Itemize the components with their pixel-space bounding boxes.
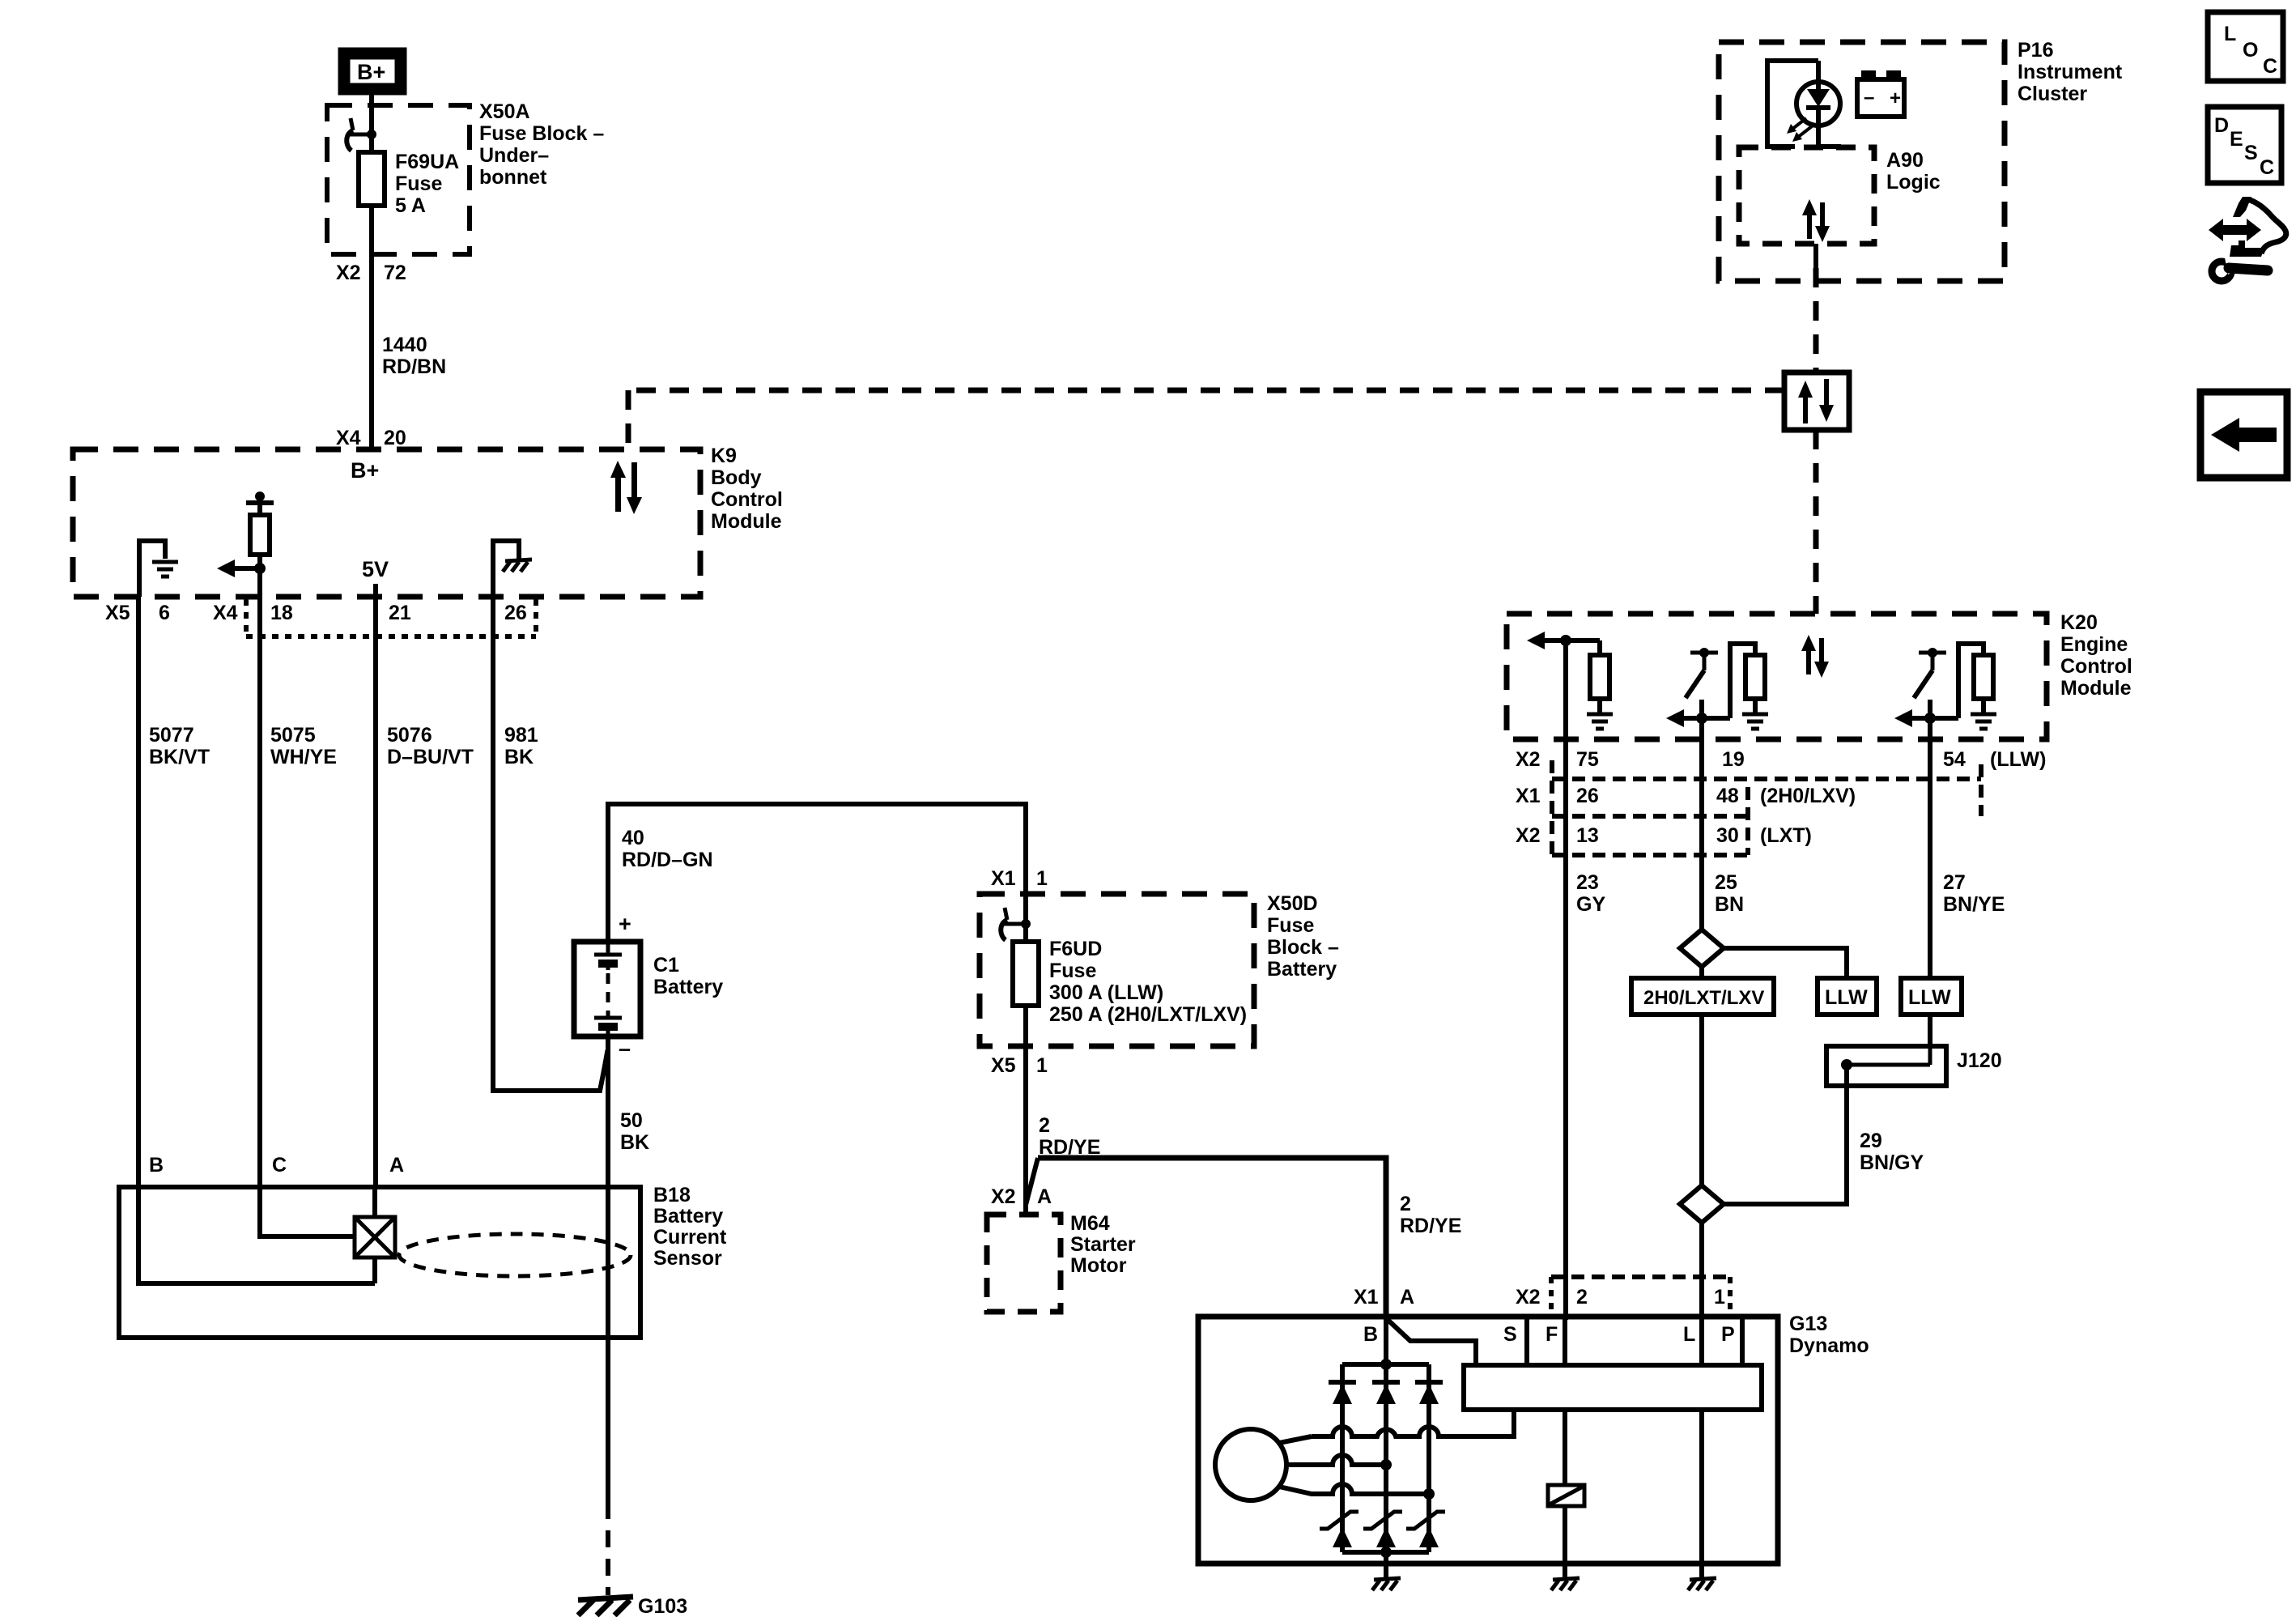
svg-text:250 A (2H0/LXT/LXV): 250 A (2H0/LXT/LXV) xyxy=(1049,1003,1247,1026)
svg-text:X1: X1 xyxy=(991,867,1016,890)
connector clip at F6UD xyxy=(1005,908,1007,920)
earth ground in K20 middle xyxy=(1742,714,1768,729)
wire 27 BN/YE xyxy=(1928,739,1932,978)
starter motor M64 dashed box xyxy=(987,1215,1061,1312)
svg-text:Motor: Motor xyxy=(1070,1254,1127,1277)
svg-text:Starter: Starter xyxy=(1070,1233,1136,1256)
svg-text:X50A: X50A xyxy=(479,100,530,123)
svg-text:BN: BN xyxy=(1715,893,1744,916)
splice diamond wire 25 xyxy=(1680,930,1724,967)
serial data line to K20 xyxy=(1813,430,1819,614)
svg-text:2: 2 xyxy=(1039,1114,1050,1137)
svg-text:A90: A90 xyxy=(1886,149,1924,172)
wire 29 BN/GY xyxy=(1724,1065,1847,1204)
svg-text:LLW: LLW xyxy=(1908,986,1951,1009)
signal arrow K20 pin54 xyxy=(1894,709,1912,727)
svg-text:18: 18 xyxy=(270,602,293,624)
data arrows in K20 xyxy=(1801,635,1829,678)
svg-text:–: – xyxy=(619,1036,631,1061)
svg-text:X4: X4 xyxy=(336,427,361,449)
switch stub pin19 xyxy=(1703,653,1707,670)
svg-text:bonnet: bonnet xyxy=(479,166,547,189)
K20 pin75 wire down xyxy=(1563,640,1568,739)
data arrows in A90 xyxy=(1802,199,1830,242)
svg-text:25: 25 xyxy=(1715,871,1737,894)
svg-text:–: – xyxy=(1864,87,1874,109)
junction dot pin54 xyxy=(1924,713,1936,724)
B18 Battery Current Sensor box xyxy=(119,1187,640,1338)
wrench xyxy=(2212,262,2231,281)
svg-text:O: O xyxy=(2243,39,2258,62)
wire 5075 WH/YE xyxy=(257,597,262,1187)
wire 25 BN through option box xyxy=(1699,967,1704,978)
svg-text:C: C xyxy=(272,1154,287,1177)
branch splice to dynamo feed xyxy=(1026,1158,1038,1205)
terminal dot above pull-up xyxy=(255,491,265,501)
svg-text:Dynamo: Dynamo xyxy=(1789,1334,1869,1357)
wire B down to rectifier xyxy=(1384,1317,1388,1364)
LED emission arrows xyxy=(1787,118,1812,142)
svg-text:Body: Body xyxy=(711,466,762,489)
wire to pull resistor pin54 xyxy=(1958,644,1983,718)
svg-text:BK: BK xyxy=(620,1131,649,1154)
dashed ellipse clamp loop xyxy=(399,1234,631,1276)
svg-text:72: 72 xyxy=(384,262,406,284)
svg-text:13: 13 xyxy=(1576,824,1599,847)
wire 5077 BK/VT xyxy=(136,597,141,1187)
svg-text:75: 75 xyxy=(1576,748,1599,771)
svg-text:D–BU/VT: D–BU/VT xyxy=(387,746,474,768)
5V stub pin 21 xyxy=(373,584,378,597)
node B+ battery feed box xyxy=(344,53,401,89)
svg-text:5076: 5076 xyxy=(387,724,432,747)
svg-text:X50D: X50D xyxy=(1267,892,1318,915)
svg-text:Battery: Battery xyxy=(1267,958,1337,981)
svg-text:(2H0/LXV): (2H0/LXV) xyxy=(1760,785,1856,807)
svg-text:Sensor: Sensor xyxy=(653,1247,722,1270)
field relay symbol on F xyxy=(1548,1485,1584,1506)
svg-text:X1: X1 xyxy=(1516,785,1541,807)
switch stub pin54 xyxy=(1931,653,1935,670)
svg-text:300 A (LLW): 300 A (LLW) xyxy=(1049,981,1163,1004)
wire 5076 D-BU/VT xyxy=(373,597,378,1187)
svg-text:5077: 5077 xyxy=(149,724,194,747)
option box 2H0/LXT/LXV xyxy=(1631,978,1774,1015)
icon back arrow box xyxy=(2200,392,2287,478)
fuse F6UD xyxy=(1013,942,1039,1006)
telltale lamp housing box xyxy=(1767,61,1818,147)
K9 Body Control Module dashed box xyxy=(73,449,700,597)
terminal bar above pull-up xyxy=(246,500,274,505)
svg-text:21: 21 xyxy=(389,602,411,624)
svg-text:26: 26 xyxy=(1576,785,1599,807)
svg-text:X2: X2 xyxy=(991,1185,1016,1208)
connector X2 dashed bracket above dynamo xyxy=(1551,1274,1730,1279)
wire pin19 internal node xyxy=(1681,716,1730,721)
wire resistor to ground pin54 xyxy=(1981,699,1986,713)
svg-text:(LLW): (LLW) xyxy=(1990,748,2046,771)
svg-text:RD/BN: RD/BN xyxy=(382,355,446,378)
wire into fuse F6UD xyxy=(1023,923,1028,942)
svg-text:X2: X2 xyxy=(1516,824,1541,847)
svg-text:+: + xyxy=(619,912,631,936)
svg-text:F: F xyxy=(1546,1323,1558,1346)
telltale battery icon xyxy=(1857,79,1904,117)
svg-text:BN/YE: BN/YE xyxy=(1943,893,2005,916)
svg-text:1440: 1440 xyxy=(382,334,427,356)
svg-text:X2: X2 xyxy=(336,262,361,284)
svg-text:Under–: Under– xyxy=(479,144,549,167)
wire pin54 internal node xyxy=(1909,716,1958,721)
fuse block X50D dashed box xyxy=(980,894,1254,1046)
rotor circle xyxy=(1215,1429,1286,1500)
wire K20 pin75 internal node xyxy=(1541,638,1600,643)
svg-text:BN/GY: BN/GY xyxy=(1860,1151,1924,1174)
svg-text:S: S xyxy=(1503,1323,1517,1346)
svg-text:E: E xyxy=(2230,128,2243,151)
svg-text:Module: Module xyxy=(711,510,782,533)
svg-text:1: 1 xyxy=(1036,867,1048,890)
svg-text:A: A xyxy=(1400,1286,1414,1308)
pin tick 75 xyxy=(1554,777,1566,781)
svg-text:Fuse: Fuse xyxy=(1267,914,1314,937)
wire B to ground xyxy=(1384,1552,1388,1578)
wire to pull resistor xyxy=(1597,640,1602,655)
junction dot pin75 xyxy=(1560,635,1571,646)
svg-text:54: 54 xyxy=(1943,748,1966,771)
svg-text:BK/VT: BK/VT xyxy=(149,746,210,768)
wire switch to node pin19 xyxy=(1699,700,1704,718)
pin box separators S F P xyxy=(1524,1317,1529,1365)
svg-text:50: 50 xyxy=(620,1109,643,1132)
SEC1 xyxy=(980,894,1386,1317)
ground G103 symbol xyxy=(578,1597,633,1615)
svg-text:Fuse: Fuse xyxy=(1049,960,1096,982)
svg-text:Fuse: Fuse xyxy=(395,172,442,195)
svg-text:23: 23 xyxy=(1576,871,1599,894)
svg-text:RD/YE: RD/YE xyxy=(1400,1215,1461,1237)
wire B+ to fuse block xyxy=(369,91,374,134)
svg-text:Current: Current xyxy=(653,1226,727,1249)
svg-text:C: C xyxy=(2263,55,2277,78)
svg-text:+: + xyxy=(1890,87,1901,109)
data arrows in K9 xyxy=(610,461,642,514)
svg-text:X2: X2 xyxy=(1516,748,1541,771)
wire through fuse xyxy=(369,134,374,152)
wire to pull resistor pin19 xyxy=(1730,644,1755,718)
svg-text:Logic: Logic xyxy=(1886,171,1941,194)
wire pin18 inside K9 xyxy=(257,568,262,597)
K20 pin19 wire down xyxy=(1699,718,1704,739)
svg-text:X2: X2 xyxy=(1516,1286,1541,1308)
wire 50 BK dashed to ground xyxy=(606,1502,610,1595)
svg-text:X4: X4 xyxy=(213,602,238,624)
switch contact K20 pin54 xyxy=(1919,651,1946,655)
svg-text:27: 27 xyxy=(1943,871,1966,894)
option box LLW 1 xyxy=(1818,978,1877,1015)
switch blade pin19 xyxy=(1686,670,1704,698)
earth ground symbol in K9 xyxy=(152,562,178,577)
resistor K20 pin19 pull-up xyxy=(1745,655,1765,699)
svg-text:Battery: Battery xyxy=(653,976,723,998)
LED diode symbol xyxy=(1807,89,1830,107)
rectifier top diodes D1 D2 D3 xyxy=(1329,1382,1443,1404)
svg-text:981: 981 xyxy=(504,724,538,747)
svg-text:30: 30 xyxy=(1716,824,1739,847)
junction dot pin19 xyxy=(1696,713,1707,724)
wire L inside dynamo xyxy=(1699,1317,1704,1564)
signal arrow K20 pin19 xyxy=(1666,709,1684,727)
svg-text:X5: X5 xyxy=(991,1054,1016,1077)
rectifier bottom rail xyxy=(1342,1550,1429,1555)
svg-text:5075: 5075 xyxy=(270,724,316,747)
rectifier bottom avalanche diodes D4 D5 D6 xyxy=(1320,1512,1445,1547)
SEC4 xyxy=(1198,1277,1778,1578)
svg-text:2: 2 xyxy=(1400,1193,1411,1215)
wire pin B branch to regulator xyxy=(1386,1318,1476,1365)
instrument cluster P16 dashed box xyxy=(1719,42,2005,281)
svg-text:J120: J120 xyxy=(1957,1049,2002,1072)
wire 40 RD/D-GN xyxy=(608,804,1026,939)
svg-text:S: S xyxy=(2244,142,2258,164)
svg-text:20: 20 xyxy=(384,427,406,449)
wire resistor to ground xyxy=(1597,699,1602,713)
svg-text:K9: K9 xyxy=(711,445,737,467)
wire resistor to node xyxy=(257,555,262,568)
svg-text:6: 6 xyxy=(159,602,170,624)
wire A through hall element xyxy=(372,1187,377,1217)
rectifier top rail xyxy=(1342,1362,1429,1367)
connector X4 dotted box below K9 xyxy=(246,599,536,636)
svg-text:B+: B+ xyxy=(357,60,385,84)
grounds below dynamo xyxy=(1372,1578,1401,1590)
junction dot switch contact pin54 xyxy=(1928,648,1937,657)
B18 internal wire B bottom run xyxy=(138,1187,375,1283)
svg-text:K20: K20 xyxy=(2060,611,2098,634)
telltale LED circle xyxy=(1796,82,1840,126)
svg-text:48: 48 xyxy=(1716,785,1739,807)
junction dot F69UA input xyxy=(367,130,376,139)
splice slant battery minus xyxy=(600,1050,607,1091)
wire 981 BK xyxy=(493,597,608,1091)
data link connector box xyxy=(1784,372,1849,430)
wire 1440 RD/BN xyxy=(369,254,374,449)
svg-text:P16: P16 xyxy=(2018,39,2053,62)
svg-text:Fuse Block –: Fuse Block – xyxy=(479,122,604,145)
svg-text:Control: Control xyxy=(711,488,783,511)
svg-text:Instrument: Instrument xyxy=(2018,61,2123,83)
svg-text:C1: C1 xyxy=(653,954,679,977)
B18 internal wire C to hall sensor xyxy=(260,1187,355,1236)
dynamo G13 box xyxy=(1198,1317,1778,1564)
svg-text:L: L xyxy=(1683,1323,1695,1346)
svg-text:1: 1 xyxy=(1714,1286,1725,1308)
svg-text:X1: X1 xyxy=(1354,1286,1379,1308)
svg-text:Battery: Battery xyxy=(653,1205,723,1228)
splice diamond wire 25 lower xyxy=(1680,1185,1724,1223)
signal arrow K20 pin75 xyxy=(1527,632,1545,649)
rectifier verticals xyxy=(1340,1364,1345,1552)
junction dot pin18 node xyxy=(254,563,266,574)
svg-text:B: B xyxy=(149,1154,164,1177)
engine control module K20 dashed box xyxy=(1507,614,2047,739)
wire 2 RD/YE down to starter xyxy=(1023,1046,1028,1215)
wire 2 RD/YE horizontal run to dynamo xyxy=(1038,1158,1386,1317)
K20 pin54 wire down xyxy=(1928,718,1932,739)
resistor K20 pin75 pull-down xyxy=(1590,655,1609,699)
icon pointer with wrench xyxy=(2209,197,2286,281)
connector row X2 dashes xyxy=(1552,760,1981,855)
svg-text:1: 1 xyxy=(1036,1054,1048,1077)
svg-text:RD/YE: RD/YE xyxy=(1039,1136,1100,1159)
wire resistor to ground pin19 xyxy=(1753,699,1758,713)
svg-text:L: L xyxy=(2224,23,2236,45)
A90 Logic dashed box xyxy=(1739,147,1874,244)
wire 25 BN xyxy=(1699,739,1704,930)
svg-text:X5: X5 xyxy=(105,602,130,624)
stator phase top line with coils xyxy=(1312,1410,1514,1436)
icon DESC box xyxy=(2208,107,2281,183)
icon LOC box xyxy=(2208,12,2283,81)
svg-text:5 A: 5 A xyxy=(395,194,426,217)
wire F inside dynamo xyxy=(1563,1317,1567,1485)
svg-text:LLW: LLW xyxy=(1825,986,1868,1009)
switch contact K20 pin19 xyxy=(1690,651,1718,655)
hall element X box xyxy=(355,1217,395,1257)
svg-text:5V: 5V xyxy=(362,557,389,581)
serial data wire below A90 xyxy=(1813,244,1818,268)
wire 25 to dynamo pin L xyxy=(1699,1223,1704,1317)
svg-text:C: C xyxy=(2260,156,2274,179)
earth ground in K20 left xyxy=(1587,714,1613,729)
battery C1 cell plates xyxy=(594,942,622,1036)
wire F6UD to X5 pin1 xyxy=(1023,1006,1028,1046)
chassis ground symbol in K9 xyxy=(503,560,532,572)
resistor K20 pin54 pull-up xyxy=(1974,655,1993,699)
svg-text:A: A xyxy=(1037,1185,1052,1208)
K9 internal ground wire pin26 xyxy=(493,541,519,597)
svg-text:Engine: Engine xyxy=(2060,633,2128,656)
branch to LLW option xyxy=(1724,948,1847,978)
earth ground in K20 right xyxy=(1971,714,1996,729)
svg-text:40: 40 xyxy=(622,827,644,849)
wire 23 GY xyxy=(1563,739,1568,1320)
junction dot F6UD input xyxy=(1021,919,1031,929)
wire arrow branch K9 pin18 xyxy=(232,566,260,571)
svg-text:D: D xyxy=(2214,114,2229,137)
svg-text:(LXT): (LXT) xyxy=(1760,824,1812,847)
wire bar to resistor xyxy=(257,503,262,515)
svg-text:B18: B18 xyxy=(653,1184,691,1206)
signal arrow K9 pin18 xyxy=(217,560,235,577)
svg-text:G13: G13 xyxy=(1789,1313,1827,1335)
SEC2 xyxy=(628,42,2005,614)
LED wire through xyxy=(1816,61,1821,91)
svg-text:P: P xyxy=(1721,1323,1735,1346)
svg-text:G103: G103 xyxy=(638,1595,687,1617)
svg-text:19: 19 xyxy=(1722,748,1745,771)
svg-text:Cluster: Cluster xyxy=(2018,83,2087,105)
battery C1 box xyxy=(574,942,640,1036)
fuse F69UA xyxy=(359,152,385,206)
SEC3 xyxy=(1507,614,2047,1320)
svg-text:F69UA: F69UA xyxy=(395,151,459,173)
svg-text:2: 2 xyxy=(1576,1286,1588,1308)
rotor leads xyxy=(1279,1436,1312,1443)
wire switch to node pin54 xyxy=(1928,700,1932,718)
fuse block X50A dashed box xyxy=(327,105,470,254)
svg-text:26: 26 xyxy=(504,602,527,624)
regulator bar xyxy=(1464,1365,1762,1410)
wire fuse to X2 pin 72 xyxy=(369,206,374,254)
svg-text:BK: BK xyxy=(504,746,534,768)
svg-text:GY: GY xyxy=(1576,893,1605,916)
svg-text:A: A xyxy=(389,1154,404,1177)
svg-text:M64: M64 xyxy=(1070,1212,1110,1235)
svg-text:B: B xyxy=(1363,1323,1378,1346)
svg-text:Module: Module xyxy=(2060,677,2132,700)
svg-text:WH/YE: WH/YE xyxy=(270,746,337,768)
double arrow xyxy=(2209,219,2261,241)
svg-text:B+: B+ xyxy=(351,458,379,483)
wire X1 pin1 into X50D xyxy=(1023,894,1028,923)
wire 50 BK xyxy=(606,1036,610,1502)
data arrows in data link box xyxy=(1798,379,1834,423)
svg-text:RD/D–GN: RD/D–GN xyxy=(622,849,713,871)
svg-text:29: 29 xyxy=(1860,1130,1882,1152)
svg-text:Control: Control xyxy=(2060,655,2132,678)
svg-text:2H0/LXT/LXV: 2H0/LXT/LXV xyxy=(1643,987,1764,1009)
junction dot switch contact pin19 xyxy=(1699,648,1709,657)
resistor K9 pin18 pull-up xyxy=(250,515,270,555)
wire LLW2 to J120 xyxy=(1928,1015,1932,1046)
connector clip at F69UA xyxy=(351,118,353,130)
option box LLW 2 xyxy=(1901,978,1962,1015)
serial data line to K9 xyxy=(628,388,1784,394)
svg-text:F6UD: F6UD xyxy=(1049,938,1102,960)
K9 internal ground wire pin6 xyxy=(139,541,165,597)
switch blade pin54 xyxy=(1914,670,1932,698)
svg-text:Block –: Block – xyxy=(1267,936,1339,959)
splice pack J120 xyxy=(1826,1046,1946,1086)
